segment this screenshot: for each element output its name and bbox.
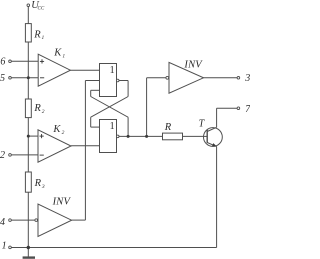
svg-text:6: 6 [0, 57, 5, 68]
svg-text:1: 1 [62, 53, 65, 59]
svg-text:1: 1 [2, 241, 7, 252]
svg-text:2: 2 [62, 130, 65, 136]
svg-text:R: R [33, 103, 41, 114]
svg-text:3: 3 [41, 184, 45, 190]
svg-text:R: R [164, 122, 172, 133]
svg-text:INV: INV [183, 59, 203, 70]
svg-text:4: 4 [0, 217, 5, 228]
svg-text:1: 1 [110, 121, 115, 132]
svg-text:R: R [33, 29, 41, 40]
svg-text:7: 7 [245, 104, 250, 115]
svg-text:1: 1 [110, 65, 115, 76]
svg-text:3: 3 [244, 73, 250, 84]
svg-text:5: 5 [0, 73, 5, 84]
svg-text:CC: CC [38, 7, 45, 12]
svg-text:1: 1 [42, 35, 45, 41]
svg-text:2: 2 [0, 150, 5, 161]
svg-text:R: R [34, 178, 42, 189]
svg-text:2: 2 [42, 109, 45, 115]
svg-text:K: K [52, 124, 61, 135]
svg-text:K: K [53, 48, 62, 59]
svg-text:INV: INV [52, 197, 72, 208]
